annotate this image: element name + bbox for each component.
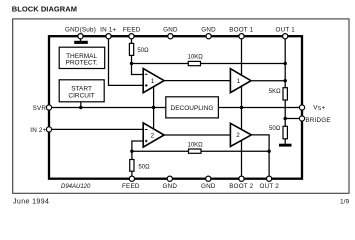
pin GND top1 xyxy=(168,34,173,39)
pin SVR xyxy=(46,105,51,110)
svg-text:CIRCUIT: CIRCUIT xyxy=(68,93,94,100)
pin OUT 2 xyxy=(267,176,272,181)
wire FEED1 pin to 50ohm R1 top xyxy=(131,39,133,44)
junction feedback2-OUT2 xyxy=(267,150,270,153)
svg-text:BLOCK DIAGRAM: BLOCK DIAGRAM xyxy=(12,4,77,13)
wire 50ohm bridge resistor to ground stem xyxy=(284,139,286,144)
svg-text:10KΩ: 10KΩ xyxy=(188,142,204,148)
junction bias stems-rail xyxy=(152,106,155,109)
wire + input of op-amp 2 down to node N2 xyxy=(132,141,143,151)
wire R1 bottom to node N1 xyxy=(131,55,133,63)
junction buffer1 output-OUT1 xyxy=(284,79,287,82)
svg-text:June 1994: June 1994 xyxy=(13,199,49,206)
svg-text:IN 2+: IN 2+ xyxy=(30,127,46,134)
svg-text:BOOT 2: BOOT 2 xyxy=(229,183,253,190)
resistor R1 50ohm ch1 xyxy=(129,43,149,55)
resistor R2 10Kohm ch1 xyxy=(188,54,204,65)
pin IN 2+ xyxy=(46,127,51,132)
wire BOOT1 vertical line xyxy=(241,39,243,108)
svg-text:DECOUPLING: DECOUPLING xyxy=(171,105,214,112)
wire OUT1 vertical line xyxy=(284,39,286,126)
buffer 2 xyxy=(230,123,251,146)
wire IN2+ to - input of op-amp 2 xyxy=(49,128,143,130)
ground bridge divider bar xyxy=(279,144,292,147)
svg-text:BOOT 1: BOOT 1 xyxy=(229,27,253,34)
svg-text:SVR: SVR xyxy=(33,105,47,112)
svg-text:OUT 2: OUT 2 xyxy=(259,183,279,190)
svg-text:10KΩ: 10KΩ xyxy=(188,54,204,60)
pin FEED bottom xyxy=(129,176,134,181)
box start circuit xyxy=(59,80,104,102)
svg-text:START: START xyxy=(71,86,92,93)
junction bridge node xyxy=(284,117,287,120)
svg-text:50Ω: 50Ω xyxy=(269,126,281,132)
pin BOOT 2 xyxy=(239,176,244,181)
svg-text:1: 1 xyxy=(151,78,155,85)
wire start circuit stem xyxy=(80,101,82,108)
resistor R4 50ohm bridge xyxy=(269,126,287,139)
wire node N2 to 50ohm R6 top xyxy=(131,151,133,159)
wire R6 bottom to FEED2 pin xyxy=(131,171,133,176)
chip boundary xyxy=(49,36,302,179)
svg-text:BRIDGE: BRIDGE xyxy=(305,117,330,124)
svg-text:GND(Sub): GND(Sub) xyxy=(65,27,96,34)
buffer 1 xyxy=(230,69,251,93)
wire supply rail SVR to decoupling to Vs+ xyxy=(49,107,302,109)
wire IN1+ vertical to + input of op-amp 1 xyxy=(109,39,144,86)
wire buffer1 output to OUT1 line xyxy=(251,80,285,82)
junction boot lines-rail xyxy=(240,106,243,109)
svg-text:50Ω: 50Ω xyxy=(138,165,150,171)
svg-text:GND: GND xyxy=(201,27,216,34)
junction node N1 xyxy=(130,62,133,65)
svg-text:2: 2 xyxy=(236,132,240,139)
pin GND(Sub) xyxy=(78,34,83,39)
resistor R3 5Kohm xyxy=(269,88,288,100)
pin GND bottom1 xyxy=(167,176,172,181)
ground GND(Sub) bar xyxy=(74,41,88,44)
svg-text:FEED: FEED xyxy=(122,183,140,190)
wire feedback ch1: node N1 to 10K R2 to OUT1 line xyxy=(132,63,286,65)
pin BRIDGE xyxy=(299,116,304,121)
svg-text:OUT 1: OUT 1 xyxy=(275,27,295,34)
wire op-amp1 bias stem to supply rail xyxy=(153,80,155,108)
pin GND top2 xyxy=(206,34,211,39)
resistor R6 50ohm ch2 xyxy=(130,160,150,172)
junction feedback1-OUT1 xyxy=(284,62,287,65)
pin FEED top xyxy=(129,34,134,39)
wire GND(Sub) stem xyxy=(80,39,82,41)
svg-text:GND: GND xyxy=(163,183,178,190)
svg-text:1: 1 xyxy=(237,78,241,85)
svg-text:VS+: VS+ xyxy=(313,105,325,112)
svg-text:50Ω: 50Ω xyxy=(137,48,149,54)
svg-text:5KΩ: 5KΩ xyxy=(269,89,281,95)
op-amp 1 xyxy=(143,69,164,93)
outer frame xyxy=(13,19,349,193)
pin OUT 1 xyxy=(283,34,288,39)
wire feedback ch2: node N2 to 10K R5 to OUT2 line xyxy=(132,150,269,152)
svg-text:GND: GND xyxy=(201,183,216,190)
resistor R5 10Kohm ch2 xyxy=(188,142,204,153)
pin IN 1+ xyxy=(106,34,111,39)
svg-text:PROTECT.: PROTECT. xyxy=(66,59,98,66)
op-amp 2 xyxy=(143,123,164,147)
junction node N2 xyxy=(130,150,133,153)
wire BRIDGE pin to divider node xyxy=(285,118,302,120)
svg-text:FEED: FEED xyxy=(123,27,141,34)
svg-text:1/9: 1/9 xyxy=(340,199,349,206)
wire op-amp2 bias stem from supply rail xyxy=(153,108,155,136)
pin BOOT 1 xyxy=(239,34,244,39)
box decoupling xyxy=(166,97,219,118)
wire node N1 to - input of op-amp 1 xyxy=(132,64,144,75)
junction start stem-rail xyxy=(79,106,82,109)
pin Vs+ xyxy=(299,105,304,110)
svg-text:GND: GND xyxy=(163,27,178,34)
wire op-amp2 output to buffer 2 input xyxy=(164,134,230,136)
svg-text:D94AU120: D94AU120 xyxy=(61,184,91,190)
box thermal protect xyxy=(59,47,104,68)
wire op-amp1 output to buffer 1 input xyxy=(164,80,230,82)
wire buffer2 output to OUT2 pin xyxy=(251,135,269,176)
pin GND bottom2 xyxy=(206,176,211,181)
svg-text:IN 1+: IN 1+ xyxy=(100,27,116,34)
svg-text:2: 2 xyxy=(151,132,155,139)
wire BOOT2 vertical line xyxy=(241,108,243,177)
